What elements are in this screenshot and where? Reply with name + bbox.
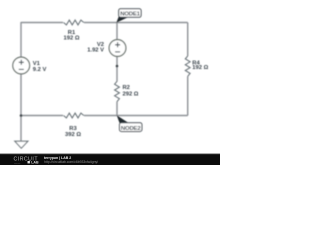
svg-text:1.92 V: 1.92 V — [87, 47, 104, 53]
ground — [15, 141, 28, 148]
svg-text:http://circuitlab.com/c6b933vf: http://circuitlab.com/c6b933vfa4gny/ — [44, 160, 98, 164]
wire: top rail left segment — [21, 22, 63, 24]
junction: middle column below V2 — [116, 65, 119, 68]
wire: left column lower (V1 to ground) — [20, 74, 22, 141]
node NODE2 pointer wedge — [117, 115, 129, 123]
svg-text:192 Ω: 192 Ω — [64, 36, 80, 42]
wire: bottom rail left segment — [21, 115, 63, 117]
svg-text:192 Ω: 192 Ω — [192, 65, 208, 71]
svg-text:NODE2: NODE2 — [121, 126, 141, 132]
footer logo CIRCUIT LAB — [14, 157, 39, 165]
junction: left column / bottom rail — [20, 114, 23, 117]
wire: right column upper — [187, 23, 189, 57]
node NODE1 pointer wedge — [116, 16, 128, 23]
svg-text:292 Ω: 292 Ω — [123, 92, 139, 98]
svg-text:R2: R2 — [123, 85, 130, 91]
wire: middle column stub (top rail to V2) — [116, 23, 118, 40]
node NODE1 — [119, 9, 141, 18]
wire: right column lower — [187, 76, 189, 115]
svg-text:9.2 V: 9.2 V — [33, 67, 47, 73]
wire: middle column (R2 to bottom rail) — [116, 102, 118, 116]
voltage source V1 — [13, 57, 30, 74]
svg-text:392 Ω: 392 Ω — [65, 132, 81, 138]
footer bar — [0, 154, 220, 166]
svg-text:——: —— — [14, 161, 20, 165]
resistor R3 — [64, 113, 84, 118]
wire: left column upper (top rail to V1) — [20, 22, 22, 57]
resistor R2 — [115, 81, 120, 101]
wire: bottom rail right segment — [84, 115, 188, 117]
svg-text:NODE1: NODE1 — [120, 12, 140, 18]
node NODE2 — [120, 123, 142, 132]
resistor R4 — [185, 56, 190, 76]
wire: top rail right segment — [84, 22, 188, 24]
voltage source V2 — [109, 40, 126, 57]
wire: middle column (V2 to R2) — [116, 57, 118, 82]
resistor R1 — [64, 20, 84, 25]
svg-text:LAB: LAB — [31, 161, 39, 165]
